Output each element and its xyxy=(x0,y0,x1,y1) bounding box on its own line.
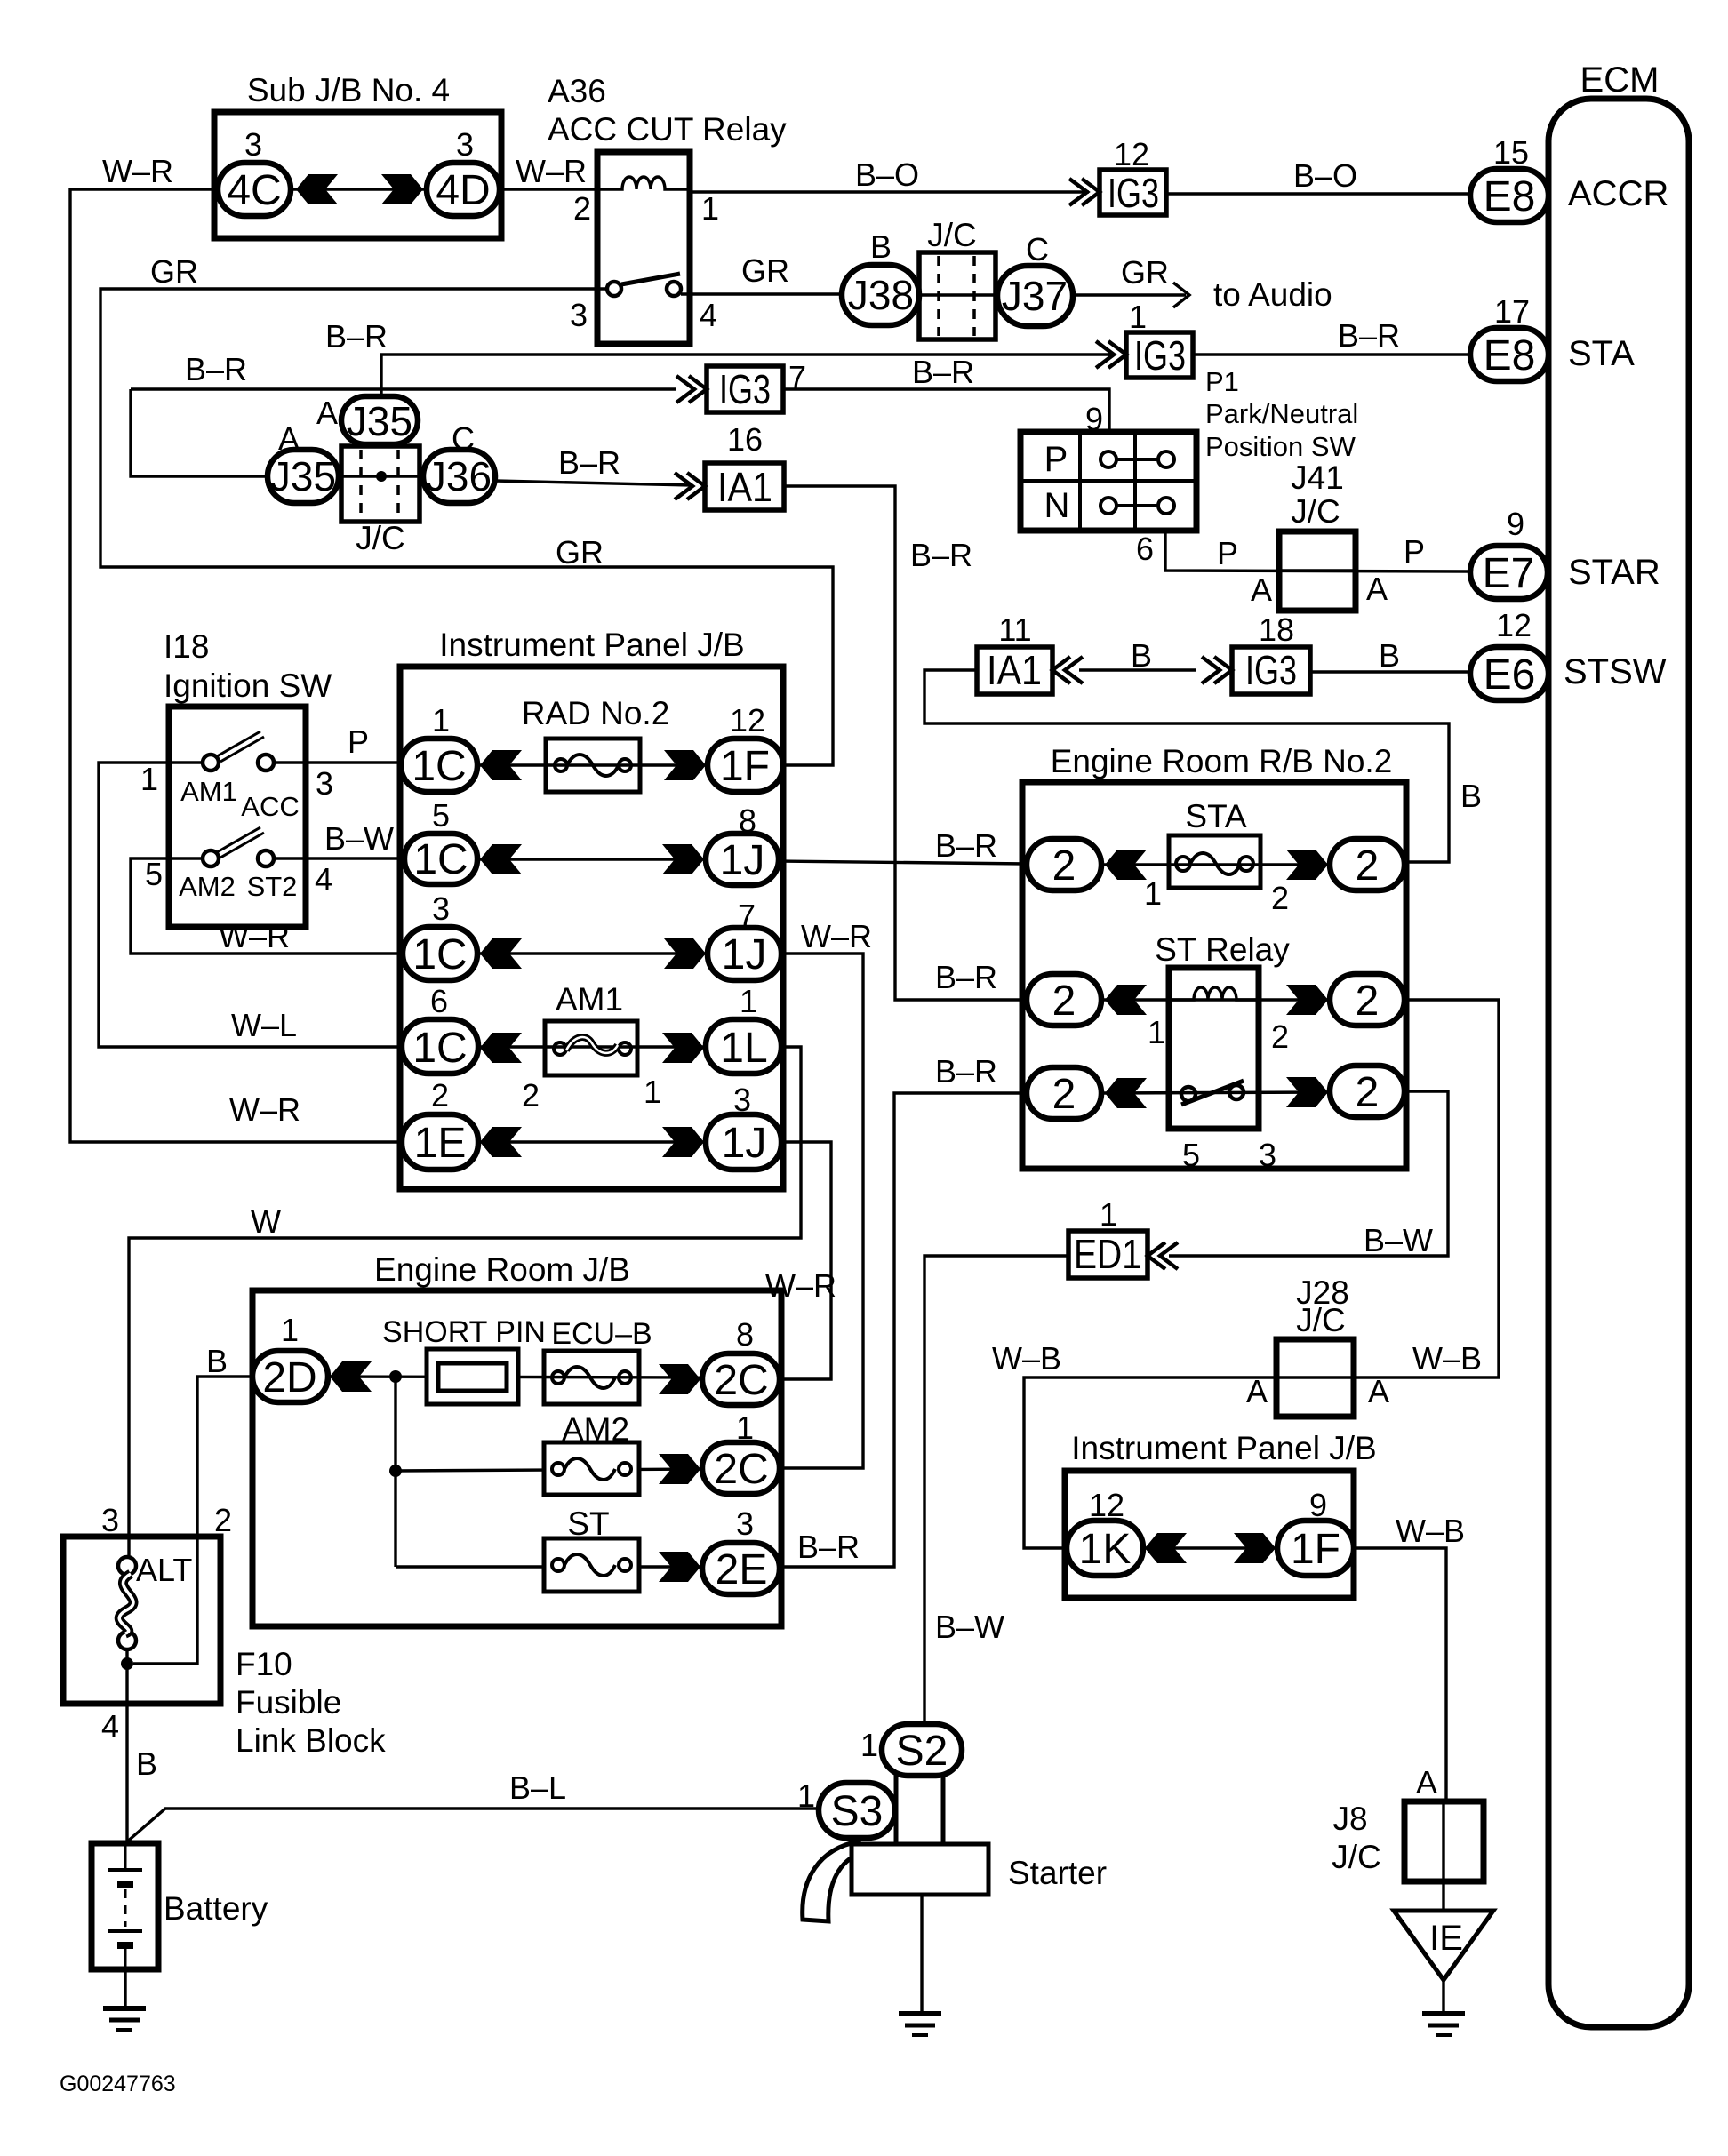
fuse AM2 xyxy=(544,1442,639,1495)
svg-text:B–W: B–W xyxy=(324,820,394,857)
svg-text:Instrument Panel J/B: Instrument Panel J/B xyxy=(1071,1430,1376,1466)
wire B from IG3 18 to E6 xyxy=(1310,670,1470,673)
wire W-B from 1F to J8 xyxy=(1354,1548,1446,1801)
svg-text:B: B xyxy=(1379,637,1400,674)
svg-text:J35: J35 xyxy=(347,398,412,444)
svg-text:STSW: STSW xyxy=(1564,652,1667,691)
connector arrow male 1F xyxy=(1234,1533,1276,1563)
wire B-R from IA1 16 down to ST relay coil xyxy=(784,486,1027,1000)
wire B from IA1 11 to STA fuse output xyxy=(924,670,1449,862)
svg-text:W–B: W–B xyxy=(1396,1513,1465,1549)
svg-text:2: 2 xyxy=(1356,842,1380,890)
park neutral position switch box xyxy=(1020,432,1196,531)
svg-text:B: B xyxy=(1131,637,1152,674)
wire W-R from 4D to relay pin 2 xyxy=(500,188,597,190)
svg-text:1E: 1E xyxy=(414,1120,467,1167)
svg-text:B–R: B–R xyxy=(797,1529,860,1565)
svg-text:3: 3 xyxy=(570,297,588,333)
svg-text:1: 1 xyxy=(736,1409,754,1446)
svg-text:6: 6 xyxy=(430,983,448,1019)
svg-text:1: 1 xyxy=(1129,299,1147,335)
svg-text:1: 1 xyxy=(281,1312,299,1348)
svg-text:B–R: B–R xyxy=(185,351,247,387)
svg-text:2C: 2C xyxy=(714,1357,768,1404)
connector 2C pin 1 xyxy=(702,1442,780,1494)
svg-text:P: P xyxy=(1404,533,1425,570)
svg-text:1L: 1L xyxy=(720,1025,767,1072)
svg-text:18: 18 xyxy=(1259,611,1294,648)
wire W-R from AM2 to 1C 3 xyxy=(131,858,403,954)
wire W from 1L down to ALT xyxy=(129,1047,801,1557)
junction connector J36 xyxy=(423,450,495,503)
wire battery to ground xyxy=(124,1969,126,2007)
svg-text:AM2: AM2 xyxy=(179,871,236,902)
svg-text:J37: J37 xyxy=(1002,273,1068,319)
wire B from 2D to fusible link xyxy=(133,1377,252,1664)
svg-text:2: 2 xyxy=(1271,880,1289,916)
svg-text:1: 1 xyxy=(797,1777,815,1814)
junction box J28 xyxy=(1276,1339,1354,1417)
wire GR from relay pin3 to 1F via left rail xyxy=(100,289,833,765)
ground starter xyxy=(899,2014,941,2035)
wire B-R from 1J8 to engine room RB xyxy=(779,861,1027,864)
ST relay coil xyxy=(1169,987,1259,1000)
connector 1C pin 1 xyxy=(401,739,477,792)
fuse RAD No.2 xyxy=(546,739,640,792)
wire P from ACC to 1C 1 xyxy=(274,761,401,763)
svg-text:1J: 1J xyxy=(722,1120,767,1167)
svg-text:P: P xyxy=(1044,440,1068,479)
svg-text:STA: STA xyxy=(1185,798,1247,834)
svg-text:Ignition SW: Ignition SW xyxy=(164,667,332,704)
svg-text:1C: 1C xyxy=(413,836,468,883)
svg-text:2: 2 xyxy=(214,1502,232,1538)
svg-text:9: 9 xyxy=(1309,1487,1327,1523)
wire row AM1 xyxy=(477,1045,706,1048)
svg-text:15: 15 xyxy=(1493,134,1529,171)
svg-text:4C: 4C xyxy=(227,167,281,214)
svg-text:2: 2 xyxy=(1052,842,1076,890)
svg-text:AM1: AM1 xyxy=(556,981,623,1018)
wire B-R from J36 to IA1 16 xyxy=(495,481,692,485)
wire through J38 junction box xyxy=(916,293,1000,296)
svg-text:E6: E6 xyxy=(1484,651,1536,699)
svg-text:P: P xyxy=(1217,535,1238,571)
wire short pin row xyxy=(328,1377,702,1377)
junction dot short pin row xyxy=(389,1370,402,1383)
svg-text:Instrument Panel J/B: Instrument Panel J/B xyxy=(439,627,744,663)
ignition switch AM2 ST2 contacts xyxy=(203,827,274,866)
svg-text:STAR: STAR xyxy=(1568,553,1660,592)
relay block connector IA1 pin 16 xyxy=(705,463,784,510)
ignition switch box xyxy=(169,707,306,927)
wire B-W from switch to ED1 xyxy=(1169,1091,1448,1256)
relay block connector IG3 pin 7 xyxy=(707,366,783,412)
svg-text:W–R: W–R xyxy=(516,153,587,189)
connector 1C pin 5 xyxy=(404,834,477,884)
wire through J35 junction box xyxy=(339,475,425,477)
svg-text:3: 3 xyxy=(1259,1137,1276,1173)
ST relay switch contacts xyxy=(1181,1081,1244,1105)
svg-text:3: 3 xyxy=(456,126,474,163)
svg-text:J/C: J/C xyxy=(1291,493,1340,530)
svg-text:J/C: J/C xyxy=(356,520,405,556)
svg-text:B–L: B–L xyxy=(509,1769,566,1806)
svg-text:A: A xyxy=(1366,571,1388,607)
svg-text:J38: J38 xyxy=(848,272,914,318)
svg-text:2: 2 xyxy=(1052,978,1076,1025)
svg-text:F10: F10 xyxy=(236,1646,292,1682)
svg-text:AM1: AM1 xyxy=(180,776,237,807)
connector S2 xyxy=(882,1724,962,1776)
svg-text:4: 4 xyxy=(101,1708,119,1745)
connector joint chevron into IG3 7 xyxy=(676,376,707,403)
svg-text:J/C: J/C xyxy=(927,217,977,253)
wire W-L from AM1 pin1 to 1C 6 xyxy=(99,763,402,1047)
svg-text:P: P xyxy=(348,723,369,760)
wire coil row xyxy=(1101,998,1330,1001)
svg-text:2: 2 xyxy=(1356,1069,1380,1116)
svg-text:7: 7 xyxy=(738,898,756,934)
relay block connector IG3 pin 18 xyxy=(1232,647,1310,694)
svg-text:6: 6 xyxy=(1136,531,1154,567)
wire W-R from 4C to left edge and down to 1E row xyxy=(70,189,402,1142)
svg-text:J35: J35 xyxy=(270,453,336,499)
wire IE to ground xyxy=(1442,1980,1444,2012)
connector 1J pin 7 xyxy=(708,928,781,980)
svg-text:11: 11 xyxy=(998,611,1031,648)
fuse ECU-B xyxy=(544,1351,639,1404)
connector 2 right of switch xyxy=(1330,1066,1404,1117)
svg-text:SHORT PIN: SHORT PIN xyxy=(382,1315,546,1349)
svg-text:ECU–B: ECU–B xyxy=(551,1317,652,1351)
connector arrow male 2E xyxy=(659,1552,700,1582)
connector arrow male row1 xyxy=(664,750,706,780)
connector 2C pin 8 xyxy=(702,1353,780,1405)
wire W-B from J28 left to 1K xyxy=(1024,1377,1276,1548)
svg-text:B–R: B–R xyxy=(558,444,620,481)
svg-text:B–O: B–O xyxy=(1293,157,1357,194)
ground IE xyxy=(1422,2014,1465,2035)
connector arrow male row5 xyxy=(662,1127,704,1157)
svg-text:RAD No.2: RAD No.2 xyxy=(522,695,670,731)
svg-text:IG3: IG3 xyxy=(1134,332,1186,379)
svg-text:1: 1 xyxy=(140,761,158,797)
svg-text:4: 4 xyxy=(315,861,332,898)
starter hook xyxy=(803,1841,862,1921)
svg-text:1K: 1K xyxy=(1079,1526,1132,1573)
svg-text:1: 1 xyxy=(1144,875,1162,912)
svg-text:1: 1 xyxy=(740,983,757,1019)
junction block Sub J/B No.4 box xyxy=(214,112,501,238)
connector 2 left of coil xyxy=(1027,974,1101,1026)
svg-text:B: B xyxy=(136,1745,157,1782)
svg-text:16: 16 xyxy=(727,421,763,458)
svg-text:1C: 1C xyxy=(412,743,466,790)
battery plates xyxy=(108,1843,142,1969)
svg-text:A: A xyxy=(1251,571,1272,608)
short pin component xyxy=(427,1349,518,1404)
svg-text:STA: STA xyxy=(1568,334,1635,373)
junction connector J35 upper xyxy=(341,396,418,444)
svg-text:N: N xyxy=(1044,486,1070,525)
svg-text:2: 2 xyxy=(1052,1071,1076,1118)
svg-text:8: 8 xyxy=(736,1316,754,1353)
svg-text:E8: E8 xyxy=(1484,332,1536,379)
relay A36 coil xyxy=(597,177,690,189)
svg-text:I18: I18 xyxy=(164,628,209,665)
svg-text:Engine Room R/B No.2: Engine Room R/B No.2 xyxy=(1051,743,1393,779)
svg-text:IA1: IA1 xyxy=(987,647,1042,693)
svg-text:3: 3 xyxy=(432,890,450,927)
svg-text:1: 1 xyxy=(432,702,450,739)
svg-text:3: 3 xyxy=(733,1082,751,1118)
svg-text:W–B: W–B xyxy=(1412,1340,1482,1377)
svg-text:3: 3 xyxy=(316,765,333,802)
connector arrow female at 4C xyxy=(296,174,338,204)
svg-text:W–R: W–R xyxy=(219,918,290,954)
svg-text:3: 3 xyxy=(244,126,262,163)
svg-text:J8: J8 xyxy=(1332,1801,1367,1837)
connector 1K pin 12 xyxy=(1067,1521,1143,1576)
svg-text:IG3: IG3 xyxy=(1108,170,1159,216)
wire row 1C3-1J7 xyxy=(477,952,708,954)
svg-text:1: 1 xyxy=(1100,1196,1117,1233)
ST relay box xyxy=(1169,968,1259,1129)
ground battery xyxy=(103,2008,146,2030)
connector E8 ACCR xyxy=(1470,169,1548,222)
svg-text:A: A xyxy=(1368,1373,1389,1409)
svg-text:Link Block: Link Block xyxy=(236,1722,386,1759)
connector arrow female 2D xyxy=(330,1361,372,1392)
svg-text:A: A xyxy=(1416,1764,1437,1801)
engine room JB box xyxy=(252,1290,781,1626)
svg-text:IG3: IG3 xyxy=(719,366,771,412)
svg-text:IG3: IG3 xyxy=(1245,647,1297,693)
starter S2 connector stem xyxy=(896,1774,943,1844)
connector arrow female row2 xyxy=(480,844,522,874)
svg-text:S3: S3 xyxy=(831,1788,884,1835)
svg-text:G00247763: G00247763 xyxy=(60,2072,176,2096)
svg-text:2D: 2D xyxy=(262,1354,316,1401)
svg-text:12: 12 xyxy=(1089,1487,1124,1523)
svg-text:A36: A36 xyxy=(548,73,606,109)
connector arrow male STA row xyxy=(1286,850,1328,880)
connector 1J pin 3 xyxy=(706,1114,781,1170)
connector joint chevron into IA1 16 xyxy=(675,473,705,499)
connector arrow male switch row xyxy=(1286,1077,1328,1107)
svg-text:2: 2 xyxy=(431,1077,449,1114)
connector arrow female STA row xyxy=(1105,850,1147,880)
wire B-R from IG3 1 to ECM E8 STA xyxy=(1193,353,1470,355)
svg-text:3: 3 xyxy=(101,1502,119,1538)
junction connector J35 lower xyxy=(268,450,339,503)
svg-text:B–R: B–R xyxy=(325,318,388,355)
svg-text:2C: 2C xyxy=(714,1446,768,1493)
connector arrow male row2 xyxy=(662,844,704,874)
svg-text:8: 8 xyxy=(739,803,756,839)
svg-text:ED1: ED1 xyxy=(1074,1231,1141,1277)
svg-text:ECM: ECM xyxy=(1580,60,1660,100)
svg-text:Park/Neutral: Park/Neutral xyxy=(1205,398,1358,429)
svg-text:1C: 1C xyxy=(412,1025,467,1072)
wire starter to ground xyxy=(920,1895,923,2012)
connector arrow female row5 xyxy=(480,1127,522,1157)
svg-text:4: 4 xyxy=(700,297,717,333)
svg-text:ACC: ACC xyxy=(241,791,299,822)
svg-text:J/C: J/C xyxy=(1296,1302,1346,1338)
fuse AM1 xyxy=(545,1021,637,1075)
svg-text:J/C: J/C xyxy=(1332,1839,1381,1875)
connector 2 left of switch xyxy=(1027,1067,1101,1119)
svg-text:W–R: W–R xyxy=(801,918,872,954)
wire switch row xyxy=(1101,1092,1330,1093)
junction box J/C of J38 J37 xyxy=(919,252,996,339)
svg-text:ACC CUT Relay: ACC CUT Relay xyxy=(548,111,787,148)
svg-text:1J: 1J xyxy=(720,837,765,884)
junction box J/C of J35 J36 xyxy=(341,446,420,522)
connector 1F pin 12 xyxy=(708,739,783,792)
svg-text:B–R: B–R xyxy=(1338,317,1400,354)
svg-text:IA1: IA1 xyxy=(717,464,772,510)
svg-text:W–L: W–L xyxy=(231,1007,297,1043)
svg-text:ST2: ST2 xyxy=(247,871,298,902)
wire B-O from IG3 to ECM E8 xyxy=(1166,192,1470,195)
connector arrow male coil row xyxy=(1286,985,1328,1015)
svg-text:S2: S2 xyxy=(896,1728,948,1775)
svg-text:Fusible: Fusible xyxy=(236,1684,341,1721)
svg-text:12: 12 xyxy=(730,702,765,739)
connector 2 left of STA xyxy=(1027,839,1101,890)
svg-text:A: A xyxy=(316,395,338,431)
wire STA row xyxy=(1101,863,1330,866)
svg-text:ST Relay: ST Relay xyxy=(1155,931,1290,968)
wire B-O from relay pin1 to IG3 12 xyxy=(690,190,1089,193)
connector 4D xyxy=(427,163,500,216)
svg-text:J41: J41 xyxy=(1291,459,1344,496)
svg-text:1: 1 xyxy=(1148,1014,1165,1050)
svg-text:12: 12 xyxy=(1496,607,1532,643)
wire B-R down to J35 lower xyxy=(131,389,268,476)
connector 1L pin 1 xyxy=(706,1019,781,1074)
junction dot AM2 row xyxy=(389,1465,402,1477)
svg-text:B–R: B–R xyxy=(912,354,974,390)
svg-text:3: 3 xyxy=(736,1505,754,1542)
ground connector IE triangle xyxy=(1394,1911,1493,1980)
relay block connector IG3 pin 12 xyxy=(1100,170,1166,215)
svg-text:Starter: Starter xyxy=(1008,1855,1107,1891)
svg-text:1: 1 xyxy=(860,1727,878,1763)
svg-text:4D: 4D xyxy=(436,167,490,214)
fuse ST xyxy=(544,1538,639,1592)
svg-text:ACCR: ACCR xyxy=(1568,174,1668,213)
connector 2 right of coil xyxy=(1330,974,1404,1026)
svg-text:B–R: B–R xyxy=(935,827,997,864)
svg-text:E8: E8 xyxy=(1484,173,1536,220)
starter body xyxy=(852,1844,988,1895)
wire B-L from battery to starter S3 xyxy=(125,1809,819,1843)
svg-text:B: B xyxy=(206,1343,228,1379)
connector 1F pin 9 xyxy=(1277,1521,1354,1576)
fuse STA xyxy=(1169,835,1260,888)
connector arrow male row4 xyxy=(662,1033,704,1063)
svg-text:GR: GR xyxy=(1121,254,1169,291)
junction connector J37 xyxy=(997,266,1073,326)
connector arrow female coil row xyxy=(1105,985,1147,1015)
svg-text:W–R: W–R xyxy=(229,1091,300,1128)
connector joint chevron into IG3 1 xyxy=(1096,341,1126,368)
svg-text:Battery: Battery xyxy=(164,1890,268,1927)
connector arrow female switch row xyxy=(1105,1078,1147,1108)
relay block connector IG3 pin 1 xyxy=(1126,332,1193,378)
connector 2 right of STA xyxy=(1330,839,1404,890)
instrument panel JB box xyxy=(400,667,783,1189)
svg-text:Sub J/B No. 4: Sub J/B No. 4 xyxy=(247,72,450,108)
wire W-R from 1J7 right and down to 2C 1 xyxy=(780,954,863,1468)
svg-text:B–W: B–W xyxy=(1364,1222,1433,1258)
wire row 1E-1J3 xyxy=(478,1140,706,1143)
connector E6 xyxy=(1470,647,1548,700)
connector arrow female row3 xyxy=(480,938,522,969)
connector 2D pin 1 xyxy=(252,1351,328,1402)
wire B between IA1 11 and IG3 18 xyxy=(1079,668,1196,671)
svg-text:GR: GR xyxy=(556,534,604,571)
svg-text:W–R: W–R xyxy=(765,1267,836,1304)
instrument panel JB lower box xyxy=(1065,1471,1354,1598)
relay block connector IA1 pin 11 xyxy=(977,647,1052,694)
wire B-R from 2E up to ST relay switch xyxy=(780,1093,1027,1567)
wire B-R from IG3 7 to park neutral switch pin 9 xyxy=(783,389,1109,432)
svg-text:2E: 2E xyxy=(716,1546,768,1593)
connector joint chevron into IG3 12 xyxy=(1069,179,1100,205)
connector 1C pin 3 xyxy=(403,927,477,980)
engine room RB No.2 box xyxy=(1022,782,1406,1169)
wire between 4C and 4D xyxy=(291,188,427,190)
fusible link block F10 box xyxy=(63,1537,220,1704)
junction box J8 xyxy=(1404,1801,1484,1881)
svg-text:17: 17 xyxy=(1494,293,1530,330)
wire GR to audio with arrow xyxy=(1073,283,1189,307)
connector 1C pin 6 xyxy=(402,1019,478,1074)
connector S3 xyxy=(819,1783,895,1838)
connector 2E pin 3 xyxy=(702,1543,780,1594)
wire AM2 row xyxy=(396,1469,702,1471)
junction connector J38 xyxy=(842,265,919,325)
svg-text:ALT: ALT xyxy=(136,1552,192,1588)
relay block connector ED1 pin 1 xyxy=(1068,1231,1148,1278)
svg-text:2: 2 xyxy=(522,1077,540,1114)
svg-text:W–R: W–R xyxy=(102,153,173,189)
ECM box xyxy=(1548,99,1689,2027)
svg-text:W: W xyxy=(251,1203,281,1240)
svg-text:C: C xyxy=(1026,231,1049,268)
svg-text:1J: 1J xyxy=(722,931,767,978)
svg-text:GR: GR xyxy=(150,253,198,290)
svg-text:GR: GR xyxy=(741,252,789,289)
connector 1J pin 8 xyxy=(706,834,779,885)
svg-text:B–R: B–R xyxy=(935,959,997,995)
svg-text:E7: E7 xyxy=(1483,550,1535,597)
connector joint chevron out of IA1 11 xyxy=(1052,657,1083,683)
connector 1E pin 2 xyxy=(402,1114,478,1170)
svg-text:A: A xyxy=(1246,1373,1268,1409)
svg-text:1: 1 xyxy=(701,190,719,227)
wire GR from relay pin4 to J38 xyxy=(681,292,842,295)
svg-text:IE: IE xyxy=(1429,1919,1463,1958)
svg-text:5: 5 xyxy=(432,797,450,834)
svg-text:B–R: B–R xyxy=(910,537,972,573)
wire W-R from 1J3 down to 2C 8 xyxy=(780,1142,831,1379)
